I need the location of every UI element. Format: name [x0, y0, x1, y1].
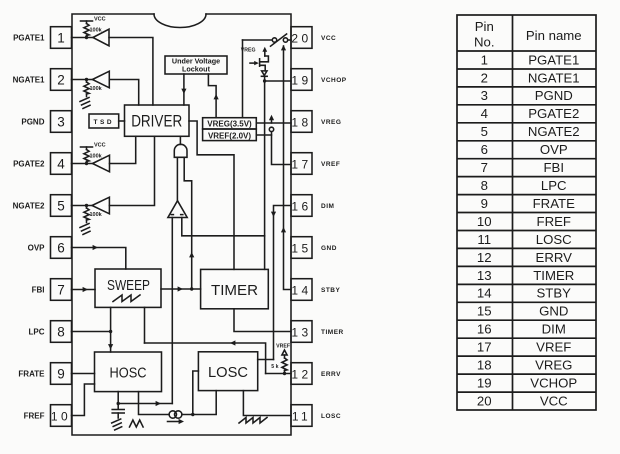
node pin1/R1 junction [85, 36, 88, 39]
pin 13 box [291, 321, 312, 343]
svg-text:Pin name: Pin name [526, 28, 582, 43]
buffer U3 (PGATE2) [93, 155, 110, 172]
pin table row line 11 [457, 247, 596, 249]
svg-text:5: 5 [57, 198, 65, 213]
svg-text:VREG: VREG [321, 119, 341, 126]
svg-text:NGATE2: NGATE2 [528, 124, 580, 139]
pin table row line 7 [457, 176, 596, 178]
node HOSC output junction [117, 402, 120, 405]
TSD block [89, 114, 119, 128]
pin table row line 13 [457, 283, 596, 285]
svg-text:FREF: FREF [537, 214, 571, 229]
resistor R2 100k pull-down [86, 80, 88, 83]
svg-text:DIM: DIM [321, 203, 334, 210]
wire pin2 to buffer [72, 79, 93, 81]
wire switch to pin 20 [288, 39, 291, 41]
pin table row line 16 [457, 337, 596, 339]
pin 18 box [291, 111, 312, 133]
pin 4 box [51, 153, 72, 175]
pin 6 box [51, 237, 72, 259]
svg-text:20: 20 [477, 393, 492, 408]
svg-text:LPC: LPC [29, 327, 45, 336]
svg-text:3: 3 [481, 88, 488, 103]
svg-text:17: 17 [291, 157, 311, 171]
svg-text:LOSC: LOSC [536, 232, 572, 247]
wire TIMER bottom to pin 13 [234, 309, 291, 332]
pin table row line 8 [457, 194, 596, 196]
resistor R4 100k pull-down [86, 206, 88, 209]
wire SWEEP bottom to LPC node to HOSC (arrow down) [110, 307, 112, 352]
sawtooth glyph in SWEEP [113, 295, 140, 302]
TIMER block [201, 269, 269, 308]
svg-text:3: 3 [57, 114, 65, 129]
wire buffer U3 to DRIVER bottom [110, 136, 136, 163]
svg-text:PGATE1: PGATE1 [528, 52, 579, 67]
svg-text:1: 1 [57, 30, 65, 45]
arrow stub above pin18 wire [271, 118, 273, 123]
IC body outline [72, 14, 291, 435]
node R5/pin12 junction [283, 372, 286, 375]
svg-text:5 k: 5 k [271, 364, 278, 370]
wire zener to pin 19 node [264, 76, 266, 81]
svg-text:OVP: OVP [28, 243, 46, 252]
svg-text:FRATE: FRATE [18, 369, 45, 378]
svg-text:VCC: VCC [94, 143, 106, 149]
VREG(3.5V) block [203, 118, 257, 129]
svg-text:4: 4 [57, 156, 65, 171]
svg-text:VCHOP: VCHOP [530, 375, 577, 390]
VREF(2.0V) block [203, 129, 257, 141]
ground (pin5) [80, 224, 89, 228]
wire VREF tap to pin 17 [272, 132, 292, 165]
svg-text:VREG: VREG [535, 358, 572, 373]
buffer U2 (NGATE1) [92, 71, 109, 88]
wire buffer U4 to DRIVER bottom [109, 136, 154, 205]
svg-text:2: 2 [57, 72, 65, 87]
svg-text:DIM: DIM [542, 322, 566, 337]
pin 16 box [291, 195, 312, 217]
switch SW1 contact b [283, 38, 287, 42]
svg-text:10: 10 [477, 214, 492, 229]
svg-text:STBY: STBY [537, 286, 572, 301]
wire pin10 FREF to HOSC [72, 384, 95, 416]
svg-text:NGATE2: NGATE2 [13, 201, 45, 210]
pin table row line 14 [457, 301, 596, 303]
wire A1 left input down to HOSC output node [171, 218, 173, 404]
pin table row line 17 [457, 355, 596, 357]
pin table row line 3 [457, 104, 596, 106]
svg-text:5: 5 [481, 124, 488, 139]
pin table header row line [457, 50, 596, 52]
svg-text:6: 6 [481, 142, 488, 157]
node pin5/R4 junction [85, 204, 88, 207]
switch SW1 contact a [272, 38, 276, 42]
current mirror / coupling symbol (double circle) [169, 411, 176, 418]
pin 17 box [291, 153, 312, 175]
wire VCC down to VREG block (V1) [242, 40, 244, 118]
VREG supply arrow [262, 47, 267, 52]
svg-text:VREF: VREF [276, 344, 290, 350]
svg-text:11: 11 [292, 409, 311, 423]
svg-text:100k: 100k [90, 28, 103, 34]
svg-text:PGATE2: PGATE2 [13, 159, 45, 168]
buffer U4 (NGATE2) [92, 197, 109, 214]
svg-text:FRATE: FRATE [533, 196, 575, 211]
svg-text:19: 19 [291, 73, 311, 87]
pin table column divider [512, 15, 514, 410]
resistor squiggle glyph (HOSC ext) [130, 420, 144, 427]
ground (pin2) [80, 98, 89, 102]
svg-text:12: 12 [291, 367, 311, 381]
svg-text:TIMER: TIMER [211, 283, 258, 299]
op-amp A1 (comparator) [168, 201, 187, 218]
svg-text:7: 7 [481, 160, 488, 175]
pin table row line 12 [457, 265, 596, 267]
pin 1 box [51, 27, 72, 49]
wire pin9 FRATE to HOSC [72, 373, 95, 375]
wire pin20 VCC to switch [243, 39, 273, 41]
wire LOSC right edge to DIM line [258, 359, 274, 361]
svg-text:18: 18 [477, 358, 492, 373]
transistor Q1 (chopper pass) [260, 56, 268, 62]
svg-text:FREF: FREF [24, 411, 45, 420]
wire DRIVER right to TIMER top [189, 121, 234, 269]
svg-text:11: 11 [477, 232, 491, 247]
wire pin 12 ERRV [266, 373, 291, 375]
wire coupling to LOSC bottom [182, 391, 216, 415]
svg-text:15: 15 [291, 241, 311, 255]
VCC rail bar (pin1) [81, 20, 93, 22]
svg-text:10: 10 [51, 409, 71, 423]
buffer U1 (PGATE1) [93, 29, 109, 46]
svg-text:OVP: OVP [540, 142, 568, 157]
pin table row line 5 [457, 140, 596, 142]
wire HOSC bottom 2 to coupling [139, 392, 170, 415]
pin 7 box [51, 279, 72, 301]
pin table row line 15 [457, 319, 596, 321]
wire VREG to UVL (arrow up) [208, 74, 216, 118]
svg-text:VREF(2.0V): VREF(2.0V) [208, 132, 251, 141]
svg-text:13: 13 [291, 325, 311, 339]
svg-text:17: 17 [477, 340, 492, 355]
wire pin1 to buffer [72, 37, 93, 39]
wire SWEEP to TIMER (arrow) [161, 288, 201, 290]
svg-text:PGATE1: PGATE1 [13, 33, 45, 42]
wire LOSC left stub down to coupling wire [193, 371, 199, 415]
svg-text:LOSC: LOSC [321, 413, 341, 420]
pin 19 box [291, 69, 312, 91]
ground (C1) [112, 419, 121, 423]
IC top notch [154, 14, 206, 27]
pin table outer frame [457, 15, 596, 410]
svg-text:NGATE1: NGATE1 [528, 70, 580, 85]
svg-text:VCC: VCC [321, 35, 336, 42]
svg-text:9: 9 [481, 196, 488, 211]
wire VREG block to pin 18 [256, 122, 291, 124]
wire pin5 to buffer [72, 205, 93, 207]
svg-text:7: 7 [57, 282, 65, 297]
wire buffer U2 to DRIVER top [109, 80, 138, 106]
pin 8 box [51, 321, 72, 343]
svg-text:4: 4 [481, 106, 488, 121]
AND gate G1 (dome top) [174, 144, 187, 157]
svg-text:14: 14 [477, 286, 492, 301]
DRIVER block U5 [125, 105, 190, 136]
node VCHOP junction [263, 79, 266, 82]
pin table row line 19 [457, 391, 596, 393]
wire pin16 DIM to LOSC (arrow down) [274, 206, 292, 360]
svg-text:8: 8 [481, 178, 488, 193]
svg-text:16: 16 [291, 199, 311, 213]
wire TSD to DRIVER [119, 120, 125, 122]
wire G1 to DRIVER bottom [179, 136, 181, 144]
pin 20 box [291, 27, 312, 49]
svg-text:GND: GND [539, 304, 568, 319]
svg-text:ERRV: ERRV [321, 371, 341, 378]
LOSC block [198, 352, 257, 391]
svg-text:STBY: STBY [321, 287, 341, 294]
svg-text:VREF: VREF [321, 161, 340, 168]
wire G1 to op-amp A1 output [176, 157, 178, 200]
wire pin4 to buffer [72, 163, 93, 165]
node LOSC stub junction [191, 413, 194, 416]
resistor R1 100k pull-up [86, 21, 88, 24]
sawtooth glyph (LOSC ext) [239, 418, 267, 424]
pin table row line 9 [457, 212, 596, 214]
wire buffer U1 to DRIVER top [109, 38, 153, 106]
resistor R3 100k pull-up [86, 147, 88, 150]
wire SWEEP bottom to ERRV line [144, 307, 146, 343]
svg-text:PGATE2: PGATE2 [528, 106, 579, 121]
arrow under coupling [168, 421, 182, 423]
pin 3 box [51, 111, 72, 133]
wire LOSC bottom to pin 11 [243, 391, 291, 416]
pin table row line 6 [457, 158, 596, 160]
node LPC junction [109, 330, 112, 333]
wire ERRV to SWEEP (arrow left) [145, 343, 266, 374]
wire G1 right leg to sweep node (arrow up) [184, 157, 192, 289]
svg-text:8: 8 [57, 324, 65, 339]
node pin4/R3 junction [85, 162, 88, 165]
pin 2 box [51, 69, 72, 91]
pin 12 box [291, 363, 312, 385]
wire pin7 FBI to SWEEP (arrow) [72, 289, 96, 291]
pin 10 box [51, 405, 72, 427]
svg-text:18: 18 [291, 115, 311, 129]
wire A1 right input to V2 [182, 218, 265, 236]
svg-text:DRIVER: DRIVER [131, 113, 182, 131]
svg-text:PGND: PGND [21, 117, 44, 126]
pin table row line 4 [457, 122, 596, 124]
wire pin8 LPC [72, 331, 111, 333]
VREF source arrow symbol [282, 350, 287, 355]
svg-text:LOSC: LOSC [208, 365, 248, 381]
wire pin14 STBY up to switch (arrows up) [284, 46, 292, 290]
svg-text:Pin: Pin [475, 19, 494, 34]
svg-text:HOSC: HOSC [110, 366, 147, 382]
svg-text:ERRV: ERRV [536, 250, 573, 265]
wire node to pin 19 [265, 80, 291, 82]
svg-text:VREG(3.5V): VREG(3.5V) [207, 120, 252, 129]
zener D1 [262, 71, 267, 76]
pin table row line 18 [457, 373, 596, 375]
svg-text:FBI: FBI [543, 160, 564, 175]
svg-text:SWEEP: SWEEP [107, 278, 150, 294]
Under Voltage Lockout block [165, 56, 227, 74]
wire pin6 OVP down into SWEEP top (arrow) [72, 248, 126, 270]
svg-text:19: 19 [477, 375, 492, 390]
pin 11 box [291, 405, 312, 427]
Q1 gate wire (arrow right) [250, 62, 256, 64]
svg-text:20: 20 [291, 31, 311, 45]
svg-text:VREG: VREG [241, 48, 256, 54]
svg-text:GND: GND [321, 245, 337, 252]
node pin2/R2 junction [85, 78, 88, 81]
svg-text:100k: 100k [90, 86, 103, 92]
svg-text:9: 9 [57, 366, 65, 381]
svg-text:14: 14 [291, 283, 311, 297]
switch SW1 blade [271, 34, 287, 46]
svg-text:TIMER: TIMER [321, 329, 344, 336]
SWEEP block [95, 269, 161, 307]
resistor R5 5k [284, 355, 286, 358]
wire VREF block output [256, 134, 271, 136]
svg-text:16: 16 [477, 322, 492, 337]
svg-text:VCC: VCC [540, 393, 568, 408]
svg-text:LPC: LPC [541, 178, 567, 193]
svg-text:100k: 100k [90, 212, 103, 218]
wire HOSC bottom to cap node [117, 392, 119, 404]
svg-text:15: 15 [477, 304, 492, 319]
pin 9 box [51, 363, 72, 385]
pin 5 box [51, 195, 72, 217]
wire V2 VCHOP node down to TIMER (arrow up) [264, 81, 266, 269]
capacitor C1 [117, 404, 119, 410]
svg-text:TSD: TSD [94, 119, 115, 126]
svg-text:VCHOP: VCHOP [321, 77, 347, 84]
svg-text:Lockout: Lockout [182, 65, 211, 74]
HOSC block [95, 352, 162, 392]
svg-text:No.: No. [474, 35, 495, 50]
svg-text:6: 6 [57, 240, 65, 255]
pin table row line 2 [457, 86, 596, 88]
svg-text:2: 2 [481, 70, 488, 85]
pin table row line 10 [457, 230, 596, 232]
svg-text:TIMER: TIMER [533, 268, 574, 283]
VCC rail bar (pin4) [81, 146, 93, 148]
wire HOSC output to op-amp input line (arrow right) [118, 403, 172, 405]
svg-text:12: 12 [477, 250, 492, 265]
pin table row line 1 [457, 68, 596, 70]
svg-text:PGND: PGND [535, 88, 573, 103]
svg-text:NGATE1: NGATE1 [13, 75, 45, 84]
svg-text:FBI: FBI [32, 285, 45, 294]
node sweep/gate junction [190, 287, 193, 290]
svg-text:VCC: VCC [94, 17, 106, 23]
pin 14 box [291, 279, 312, 301]
svg-text:100k: 100k [90, 154, 103, 160]
svg-text:1: 1 [481, 52, 488, 67]
node VREF tap circle [269, 127, 273, 131]
wire UVL to DRIVER (arrow down) [183, 74, 185, 105]
pin 15 box [291, 237, 312, 259]
svg-text:13: 13 [477, 268, 492, 283]
svg-text:VREF: VREF [536, 340, 571, 355]
